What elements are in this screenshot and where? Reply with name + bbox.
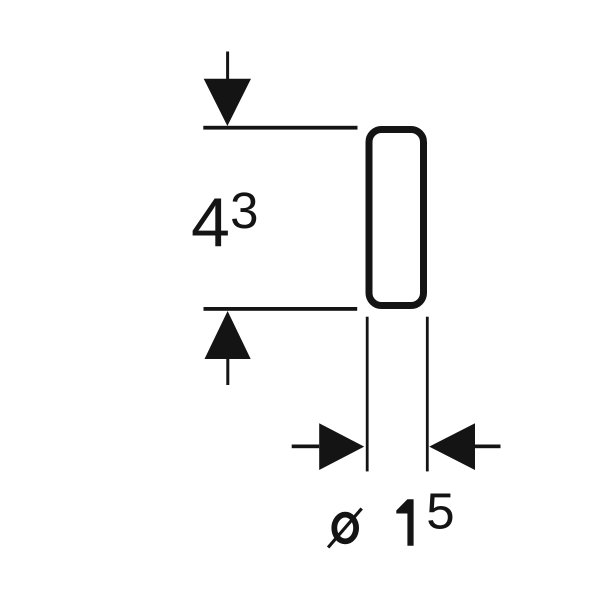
diameter label 1 (of 15) <box>396 499 413 546</box>
right extension line (diameter) <box>426 317 429 472</box>
svg-text:3: 3 <box>230 182 258 239</box>
bottom arrowhead (pointing up) <box>205 311 251 359</box>
leader line above top arrowhead <box>226 52 229 80</box>
leader line below bottom arrowhead <box>226 359 229 385</box>
diameter symbol slash <box>328 509 362 548</box>
right arrowhead (pointing left) <box>429 423 475 470</box>
top dimension line (height 43) <box>203 126 357 130</box>
svg-text:5: 5 <box>426 483 454 540</box>
left arrow tail <box>292 445 320 449</box>
left extension line (diameter) <box>366 317 369 472</box>
left arrowhead (pointing right) <box>319 423 364 470</box>
bottom dimension line (height 43) <box>204 307 358 311</box>
diameter symbol o-ring <box>334 515 356 542</box>
right arrow tail <box>475 445 501 449</box>
svg-text:4: 4 <box>191 184 230 262</box>
flush actuator pill (rounded rectangle outline) <box>369 130 424 306</box>
top arrowhead (pointing down) <box>204 79 251 126</box>
